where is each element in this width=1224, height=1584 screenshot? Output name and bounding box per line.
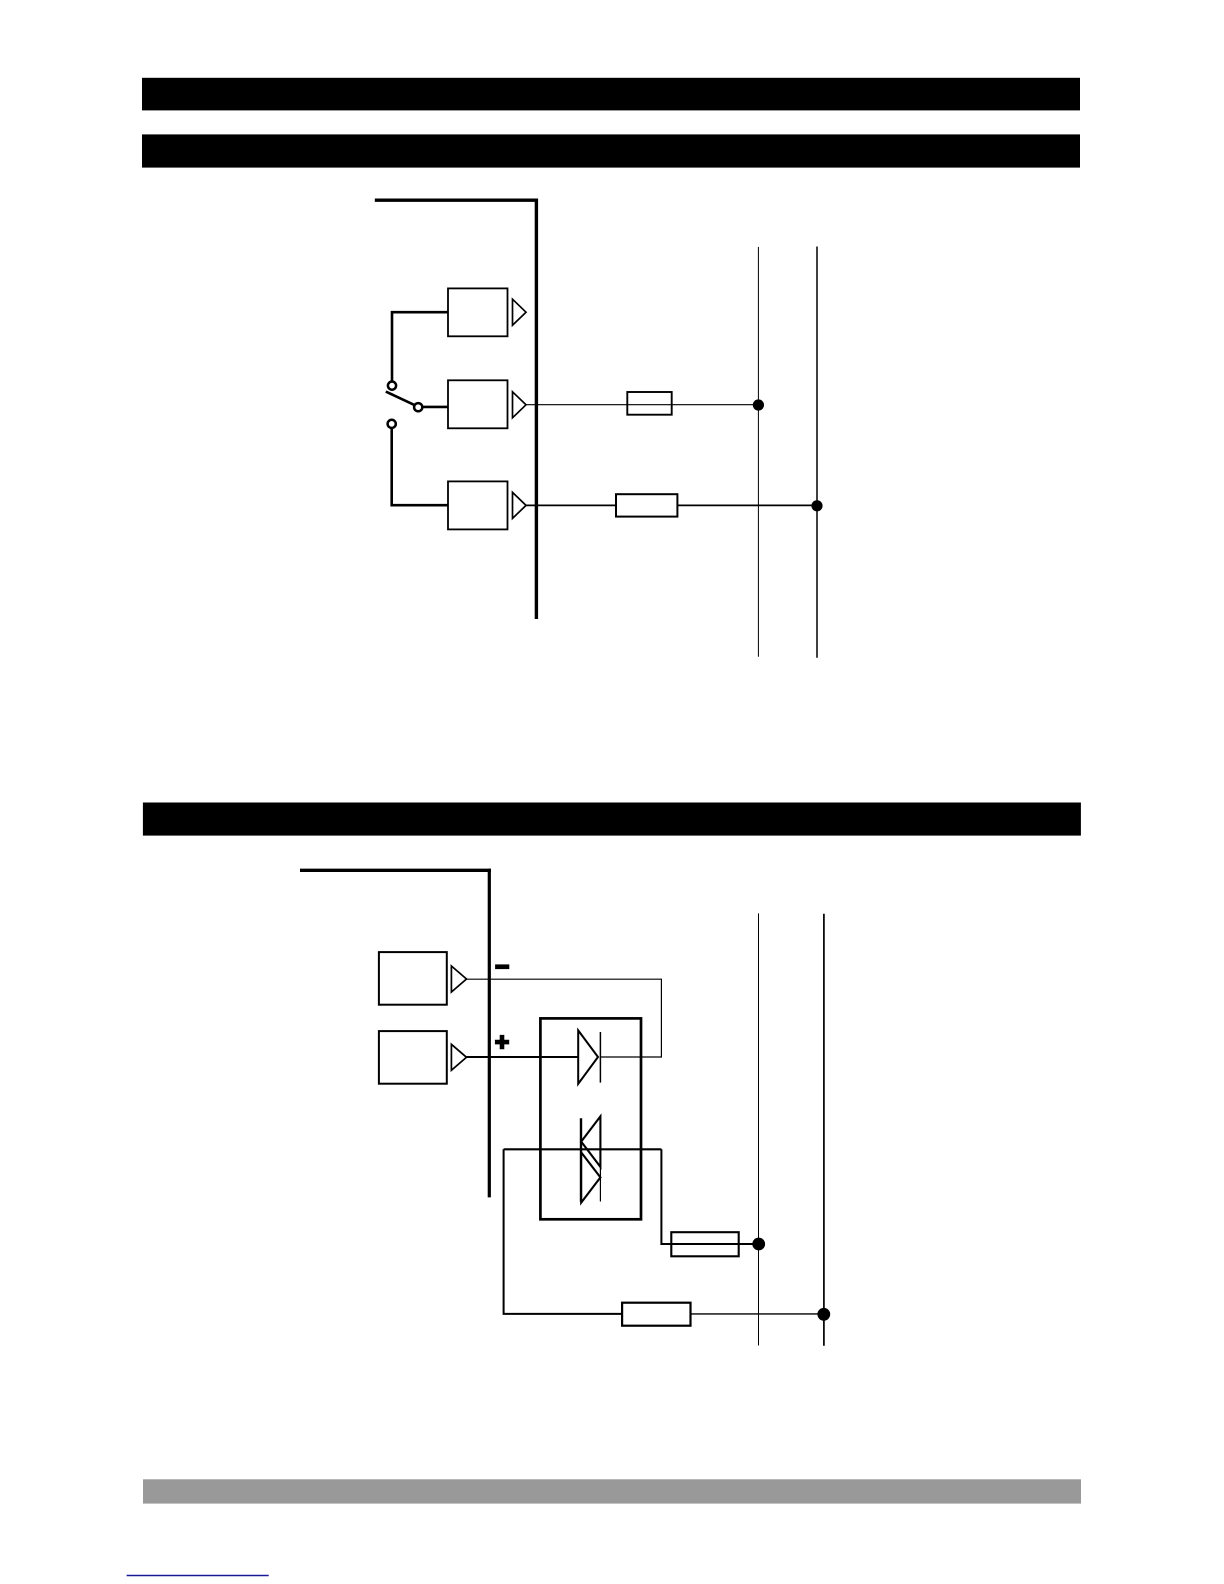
output box A (minus) [379, 952, 447, 1005]
load resistor R1 [616, 494, 677, 516]
switch S1 contact middle [414, 403, 422, 411]
relay box K1 [448, 288, 508, 336]
supply line L1 (diagram 2) [758, 913, 760, 1345]
LED D1 cathode bar [599, 1032, 601, 1083]
header bar (diagram 2 title, redacted) [143, 803, 1081, 836]
wire: panel boundary top (thick) [375, 198, 538, 201]
driver triangle K3 [513, 492, 527, 518]
triac Q1 left bar [580, 1118, 582, 1202]
wire: triac horizontal through [504, 1148, 662, 1150]
supply line L2 (diagram 2) [823, 914, 825, 1346]
header bar (section title, redacted) [142, 78, 1080, 111]
plus polarity label [495, 1035, 509, 1049]
relay box K2 [448, 380, 508, 428]
triac Q1 upper triangle [581, 1116, 600, 1167]
supply line L1 (diagram 1) [757, 247, 759, 657]
driver triangle K1 [513, 299, 527, 325]
fuse F2 (line-through rectangle) [671, 1232, 738, 1256]
wire: triac right down through fuse F2 [661, 1149, 758, 1244]
fuse F1 (line-through rectangle) [627, 392, 671, 415]
wire: plus output to LED anode [467, 1056, 579, 1058]
node dot on L2 [811, 500, 822, 511]
wire: panel boundary vertical (thick) [488, 869, 491, 1198]
wire: K3 output to supply line L2 [526, 504, 817, 506]
optocoupler box U1 [540, 1018, 641, 1219]
wire: switch bottom contact to relay K3 [392, 428, 448, 505]
driver triangle K2 [513, 392, 527, 418]
output box B (plus) [379, 1031, 447, 1084]
wire: R2 to supply line L2 (diagram 2) [622, 1313, 824, 1315]
wire: panel boundary top (thick) [300, 869, 491, 872]
wire: panel boundary vertical (thick) [535, 199, 538, 620]
minus polarity label [495, 964, 509, 969]
footnote rule (navy) [127, 1575, 269, 1577]
driver triangle A [451, 966, 466, 992]
triac Q1 lower triangle [581, 1152, 600, 1202]
relay box K3 [448, 481, 508, 529]
wire: triac left to load resistor R2 [504, 1149, 622, 1314]
switch S1 contact top [388, 382, 396, 390]
load resistor R2 [622, 1303, 690, 1326]
LED D1 triangle [578, 1030, 598, 1083]
driver triangle B [451, 1044, 466, 1070]
wire: switch middle contact to relay K2 [423, 406, 448, 409]
switch S1 contact bottom [388, 420, 396, 428]
wire: K2 output to supply line L1 (thin) [526, 404, 758, 406]
wire: relay K1 to switch common [392, 312, 448, 381]
switch S1 lever [386, 392, 415, 406]
footer bar (gray) [143, 1479, 1081, 1503]
triac Q1 right bar [599, 1116, 601, 1201]
node dot on L1 [753, 399, 764, 410]
supply line L2 (diagram 1) [816, 247, 818, 658]
wire: minus output to LED cathode [467, 979, 662, 1057]
node dot on L1 (diagram 2) [752, 1238, 765, 1251]
node dot on L2 (diagram 2) [817, 1308, 830, 1321]
header bar (subsection title, redacted) [142, 134, 1080, 167]
